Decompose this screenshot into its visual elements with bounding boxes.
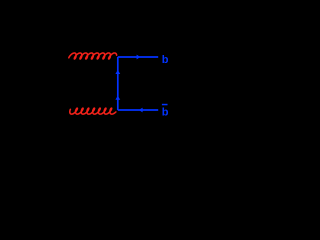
svg-text:b: b	[162, 54, 169, 66]
gluon g2 (bottom incoming gluon)	[70, 108, 116, 114]
arrow up on propagator (upper)	[115, 70, 120, 74]
arrow left on anti-b line	[139, 108, 143, 113]
gluon g1 (top incoming gluon)	[69, 53, 117, 59]
svg-text:b: b	[162, 107, 169, 119]
arrow right on b line	[137, 55, 141, 60]
wire outgoing b quark line (top)	[118, 56, 158, 58]
wire outgoing anti-b quark line (bottom)	[118, 109, 158, 111]
overline of b-bar	[162, 104, 168, 106]
arrow up on propagator (lower)	[115, 96, 120, 100]
wire quark propagator (vertical fermion line)	[117, 57, 119, 110]
